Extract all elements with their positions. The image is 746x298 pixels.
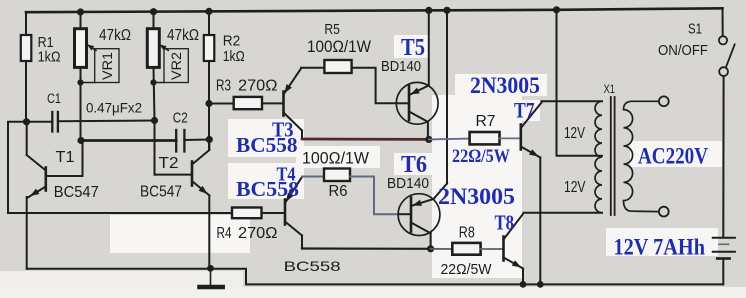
resistor R2	[204, 11, 215, 150]
ground	[200, 268, 223, 287]
junction T6 top rail	[443, 7, 450, 14]
svg-text:T5: T5	[401, 35, 425, 61]
svg-text:47kΩ: 47kΩ	[99, 27, 131, 44]
svg-text:22Ω/5W: 22Ω/5W	[452, 146, 510, 167]
VR2 wiper arrow	[159, 45, 166, 51]
svg-text:BD140: BD140	[387, 176, 429, 192]
battery 12V 7AHh	[713, 238, 735, 285]
svg-text:BC558: BC558	[236, 177, 299, 201]
svg-text:R4: R4	[217, 225, 232, 242]
svg-text:VR1: VR1	[100, 52, 115, 80]
wire bottom left ground rail	[27, 269, 723, 285]
junction node T2 base top	[151, 117, 158, 124]
T4 emitter arrow	[286, 193, 294, 202]
wire top supply rail	[26, 8, 723, 12]
svg-text:0.47μFx2: 0.47μFx2	[86, 100, 142, 116]
wire T8 collector to primary bottom	[524, 212, 602, 214]
junction R2 top	[205, 8, 212, 15]
svg-text:T7: T7	[514, 98, 535, 123]
potentiometer VR1	[75, 12, 120, 141]
potentiometer VR2	[147, 12, 188, 121]
svg-text:S1: S1	[688, 21, 702, 38]
resistor R7	[429, 132, 521, 144]
svg-text:47kΩ: 47kΩ	[167, 27, 199, 44]
svg-text:R5: R5	[324, 21, 340, 38]
T8 emitter arrow	[512, 260, 521, 267]
terminal AC bottom	[659, 207, 669, 217]
svg-text:T8: T8	[495, 211, 515, 235]
resistor R4	[232, 208, 285, 219]
svg-text:2N3005: 2N3005	[470, 73, 540, 98]
transformer X1 secondary winding	[624, 101, 660, 211]
junction node T2 collector	[206, 136, 213, 143]
junction T6 collector node	[427, 245, 434, 252]
T5 emitter arrow	[410, 88, 420, 95]
svg-text:270Ω: 270Ω	[238, 78, 278, 95]
transistor T7 2N3005	[521, 103, 542, 285]
junction VR2 top	[150, 8, 157, 15]
svg-text:T2: T2	[159, 155, 179, 172]
transformer X1 primary winding	[595, 101, 602, 213]
junction center tap top rail	[553, 6, 560, 13]
junction T5 top rail	[425, 7, 432, 14]
svg-text:C1: C1	[47, 91, 61, 106]
switch S1	[719, 8, 735, 236]
svg-text:C2: C2	[173, 111, 188, 127]
junction VR1 wiper tie	[77, 79, 83, 85]
wire feedback line to R4	[8, 212, 232, 214]
svg-text:1kΩ: 1kΩ	[223, 48, 245, 65]
junction T8 emitter rail	[520, 281, 527, 288]
junction node T1 collector	[23, 118, 30, 125]
T3 emitter arrow	[284, 84, 292, 93]
svg-text:100Ω/1W: 100Ω/1W	[302, 149, 369, 168]
svg-text:VR2: VR2	[169, 52, 184, 80]
resistor R8	[431, 243, 504, 255]
junction ground node	[207, 265, 214, 272]
T2 emitter arrow	[199, 186, 208, 194]
transistor T4 BC558	[285, 177, 302, 249]
transistor T8 2N3005	[504, 213, 524, 284]
svg-text:BC547: BC547	[140, 184, 182, 201]
junction VR1 top	[77, 8, 84, 15]
resistor R5	[301, 60, 397, 103]
wire T1 collector node to left drop	[8, 122, 27, 213]
svg-text:270Ω: 270Ω	[238, 225, 278, 242]
resistor R3	[209, 97, 284, 109]
svg-text:22Ω/5W: 22Ω/5W	[441, 261, 493, 278]
svg-text:R8: R8	[459, 225, 475, 242]
transistor T1 BC547	[27, 122, 83, 269]
svg-text:R6: R6	[329, 183, 348, 200]
wire T7 collector to primary top	[542, 100, 603, 102]
VR1 wiper arrow	[87, 45, 94, 51]
svg-text:AC220V: AC220V	[638, 143, 708, 169]
transistor T2 BC547	[155, 121, 210, 269]
svg-text:12V 7AHh: 12V 7AHh	[614, 235, 706, 261]
svg-text:BD140: BD140	[381, 59, 421, 75]
T6 emitter arrow	[412, 200, 422, 206]
junction node T1 base	[77, 137, 84, 144]
T1 emitter arrow	[30, 189, 39, 196]
svg-text:R7: R7	[476, 113, 496, 130]
svg-text:R3: R3	[216, 78, 231, 95]
junction T5 collector node	[425, 136, 432, 143]
junction VR2 wiper tie	[150, 79, 156, 85]
T7 emitter arrow	[529, 149, 538, 156]
svg-text:BC558: BC558	[236, 133, 298, 157]
svg-text:12V: 12V	[564, 179, 586, 196]
svg-text:X1: X1	[604, 82, 616, 96]
svg-text:2N3005: 2N3005	[438, 184, 515, 210]
junction T7 emitter rail	[537, 281, 544, 288]
transistor T6 BD140	[398, 10, 447, 249]
svg-text:T6: T6	[401, 152, 427, 178]
terminal AC top	[659, 96, 669, 106]
resistor R1	[21, 12, 32, 122]
junction R3 left	[205, 100, 212, 107]
capacitor C1	[27, 112, 155, 132]
svg-text:ON/OFF: ON/OFF	[658, 43, 708, 59]
svg-text:100Ω/1W: 100Ω/1W	[307, 37, 371, 56]
resistor R6	[302, 169, 398, 215]
svg-text:BC547: BC547	[54, 184, 99, 201]
transformer X1 core	[611, 97, 615, 215]
wire center tap from rail	[557, 10, 603, 156]
transistor T5 BD140	[396, 10, 438, 139]
svg-text:T1: T1	[56, 149, 75, 166]
capacitor C2	[81, 130, 209, 152]
svg-text:BC558: BC558	[284, 258, 341, 274]
wire T3 collector line	[302, 138, 429, 141]
svg-text:1kΩ: 1kΩ	[38, 49, 61, 66]
svg-text:12V: 12V	[564, 125, 585, 142]
transistor T3 BC558	[284, 69, 303, 140]
wire T4 collector line	[302, 247, 431, 250]
